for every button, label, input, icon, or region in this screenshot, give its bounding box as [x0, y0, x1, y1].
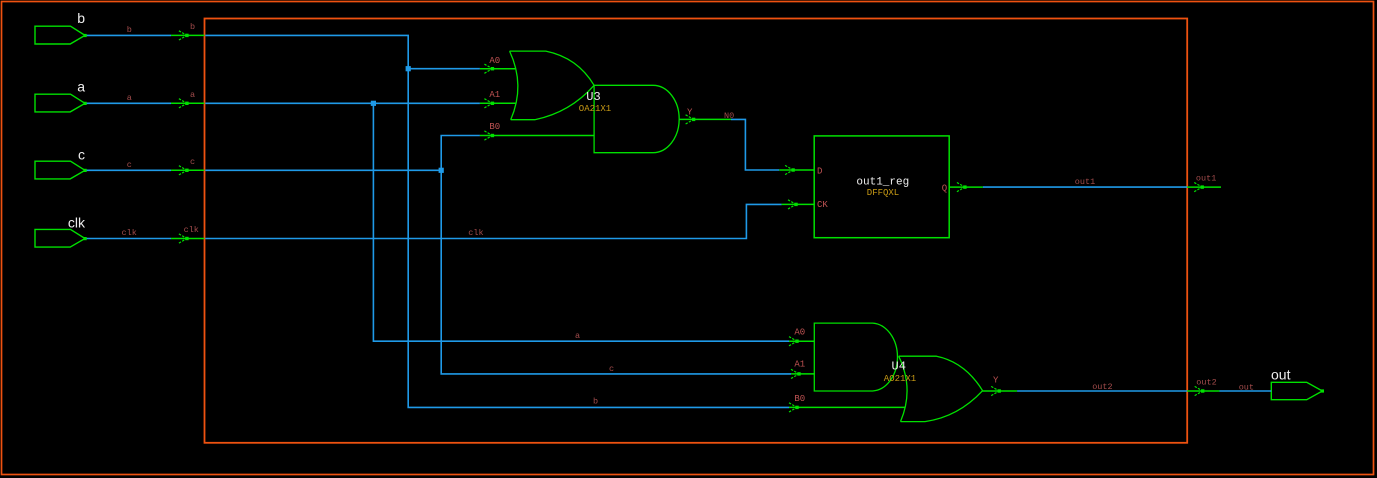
svg-text:U4: U4	[892, 360, 906, 374]
U3 pin B0 stub	[480, 122, 594, 140]
svg-text:out: out	[1239, 383, 1254, 393]
DFF pin D stub	[779, 165, 814, 174]
DFF pin Q output stub	[949, 183, 983, 192]
svg-text:out: out	[1271, 366, 1291, 382]
svg-text:a: a	[190, 90, 195, 100]
svg-text:b: b	[127, 25, 132, 35]
flip-flop out1_reg	[814, 136, 949, 238]
svg-text:out2: out2	[1196, 378, 1216, 388]
wire net out1	[983, 177, 1187, 187]
U3 pin A1 stub	[480, 90, 516, 108]
svg-text:AO21X1: AO21X1	[884, 374, 916, 384]
module boundary	[205, 19, 1188, 443]
svg-text:c: c	[190, 157, 195, 167]
U4 pin A0 stub	[789, 327, 814, 346]
svg-text:a: a	[77, 78, 85, 94]
svg-text:Q: Q	[942, 184, 947, 194]
wire net out2	[1017, 382, 1187, 392]
wire net clk inside module	[205, 204, 781, 238]
svg-text:clk: clk	[468, 228, 483, 238]
U4 AND stage	[814, 323, 897, 391]
U3 pin Y output	[679, 108, 731, 125]
U3 pin A0 stub	[480, 56, 516, 73]
junction a	[371, 101, 376, 106]
svg-text:a: a	[127, 93, 132, 103]
DFF pin CK stub	[782, 200, 815, 209]
wire net a inside module	[205, 101, 789, 342]
wire net b (port to boundary)	[84, 22, 205, 40]
svg-text:out1_reg: out1_reg	[856, 177, 909, 189]
svg-text:b: b	[190, 22, 195, 32]
junction c	[439, 168, 444, 173]
svg-text:out1: out1	[1196, 174, 1216, 184]
wire net N0	[724, 111, 779, 170]
net out2 boundary stub	[1187, 378, 1219, 396]
junction b	[406, 66, 411, 71]
wire net out (to port)	[1220, 383, 1272, 393]
U3 OR stage	[510, 51, 594, 120]
U4 pin Y output	[983, 376, 1018, 396]
svg-text:out2: out2	[1092, 382, 1112, 392]
svg-text:Y: Y	[687, 108, 693, 118]
svg-text:B0: B0	[489, 122, 500, 132]
input port b	[35, 26, 85, 44]
svg-text:U3: U3	[586, 90, 600, 104]
net out1 boundary stub	[1187, 174, 1221, 192]
U4 pin A1 stub	[791, 360, 814, 379]
svg-text:DFFQXL: DFFQXL	[867, 188, 899, 198]
svg-text:A0: A0	[794, 327, 805, 337]
svg-text:c: c	[78, 147, 85, 163]
svg-text:OA21X1: OA21X1	[579, 104, 611, 114]
output port out	[1271, 382, 1324, 399]
svg-text:B0: B0	[794, 394, 805, 404]
input port clk	[35, 229, 85, 247]
svg-text:A1: A1	[489, 90, 500, 100]
svg-text:A0: A0	[489, 56, 500, 66]
wire net b inside module	[205, 35, 789, 407]
svg-text:Y: Y	[993, 376, 999, 386]
wire net c (port to boundary)	[84, 157, 205, 175]
svg-text:c: c	[127, 160, 132, 170]
wire net c inside module	[205, 136, 791, 375]
input port a	[35, 94, 85, 112]
svg-text:clk: clk	[184, 225, 199, 235]
svg-text:out1: out1	[1075, 177, 1095, 187]
svg-text:clk: clk	[122, 228, 137, 238]
input port c	[35, 161, 85, 179]
svg-text:b: b	[77, 10, 85, 26]
svg-text:clk: clk	[68, 215, 86, 231]
svg-text:D: D	[817, 166, 822, 176]
wire net clk (port to boundary)	[84, 225, 205, 243]
U4 OR stage	[899, 356, 983, 421]
U4 pin B0 stub	[789, 394, 905, 412]
svg-text:b: b	[593, 397, 598, 407]
U3 AND stage	[594, 85, 679, 152]
svg-text:a: a	[575, 331, 580, 341]
wire net a (port to boundary)	[84, 90, 205, 108]
svg-text:A1: A1	[794, 360, 805, 370]
svg-text:c: c	[609, 364, 614, 374]
svg-text:CK: CK	[817, 200, 828, 210]
svg-text:N0: N0	[724, 111, 734, 121]
